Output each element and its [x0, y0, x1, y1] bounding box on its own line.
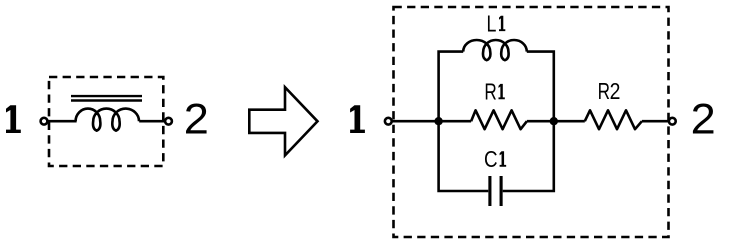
node 1 label (left circuit) [6, 105, 21, 133]
wire right junction to R2 [554, 120, 585, 123]
arrow (transformation) [249, 87, 317, 155]
inductor coil (left circuit) [76, 109, 139, 131]
port 2 terminal (left circuit) [165, 118, 172, 125]
svg-text:R: R [598, 78, 610, 104]
port 1 terminal (left circuit) [41, 118, 48, 125]
capacitor C1 right plate [500, 176, 503, 206]
svg-text:C: C [484, 146, 498, 172]
wire port 1 to coil [47, 120, 76, 123]
left junction dot [434, 117, 442, 125]
dashed enclosure (left circuit) [49, 77, 163, 166]
parallel branch frame bottom-left wire [439, 120, 489, 191]
parallel branch frame top-right wire [527, 52, 554, 123]
core line top [71, 95, 142, 97]
inductor L1 [463, 40, 527, 60]
svg-text:2: 2 [610, 78, 621, 104]
wire coil to port 2 [139, 120, 165, 123]
resistor R2 [585, 110, 642, 129]
svg-text:2: 2 [691, 95, 716, 143]
parallel branch frame bottom-right wire [503, 120, 554, 191]
node 1 label (right circuit) [350, 105, 365, 133]
svg-text:2: 2 [184, 95, 209, 143]
capacitor C1 left plate [488, 176, 491, 206]
port 2 terminal (right circuit) [669, 118, 676, 125]
port 1 terminal (right circuit) [385, 118, 392, 125]
resistor R1 [471, 110, 527, 129]
svg-text:R: R [484, 79, 496, 105]
right junction dot [550, 117, 558, 125]
svg-text:L: L [487, 10, 497, 36]
wire R2 to port 2 [642, 120, 668, 123]
wire left junction to R1 [439, 120, 472, 123]
wire R1 to right junction [527, 120, 554, 123]
wire port 1 to left junction [392, 120, 439, 123]
core line bottom [71, 99, 142, 101]
parallel branch frame top-left wire [439, 52, 464, 123]
dashed enclosure (right circuit) [394, 7, 669, 237]
